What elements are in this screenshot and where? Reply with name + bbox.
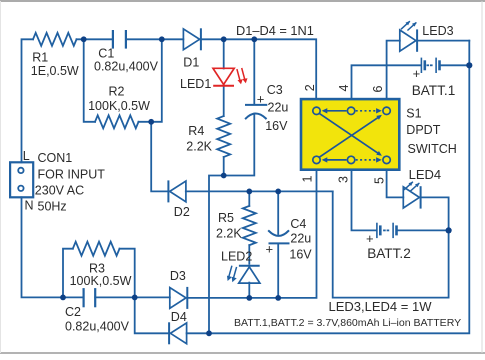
node BATT.2 right [446, 227, 452, 233]
svg-text:100K,0.5W: 100K,0.5W [70, 274, 132, 288]
node BATT.1 right [466, 62, 472, 68]
svg-text:LED3: LED3 [422, 24, 453, 38]
wire: LED1 branch node to LED1 [223, 39, 225, 68]
svg-text:LED1: LED1 [180, 77, 211, 91]
wire: LED2 to bottom rail [248, 283, 250, 298]
svg-text:D2: D2 [174, 205, 190, 219]
svg-text:D4: D4 [171, 310, 187, 324]
node D4 rail junction [206, 330, 212, 336]
wire: D4 rail to right vertical [187, 41, 470, 334]
resistor R3 [73, 242, 120, 256]
resistor R4 [217, 116, 230, 157]
svg-text:S1: S1 [406, 107, 421, 121]
svg-text:D1–D4 = 1N1: D1–D4 = 1N1 [236, 23, 314, 38]
node R5 top [246, 189, 252, 195]
svg-text:CON1: CON1 [38, 151, 73, 165]
svg-text:N: N [25, 199, 34, 213]
capacitor C2 [84, 289, 96, 306]
svg-text:R4: R4 [188, 124, 204, 138]
svg-text:22u: 22u [290, 232, 311, 246]
diode D1 [183, 29, 201, 50]
svg-text:R1: R1 [32, 51, 48, 65]
node C1/D1/R2 [159, 36, 165, 42]
node C3 branch [251, 36, 257, 42]
switch arrow bottom dotted [356, 159, 380, 161]
diode D3 [170, 288, 188, 309]
svg-text:1: 1 [301, 175, 315, 182]
resistor R2 [95, 115, 139, 128]
svg-text:+: + [257, 92, 265, 107]
frame: page border left [0, 1, 2, 353]
wire: pin6 branch up to LED3 [387, 41, 400, 99]
svg-text:1E,0.5W: 1E,0.5W [31, 64, 79, 78]
switch arrow top dotted [356, 110, 380, 112]
LED4 arrows [405, 182, 419, 190]
wire: R1 to C1 [77, 38, 113, 40]
resistor R1 [33, 33, 77, 46]
node R1/C1/R2 [81, 36, 87, 42]
svg-text:C3: C3 [267, 83, 283, 97]
diode D2 [168, 181, 186, 202]
svg-text:BATT.2: BATT.2 [367, 246, 411, 261]
svg-text:3: 3 [336, 176, 350, 183]
svg-text:5: 5 [372, 177, 386, 184]
svg-text:2.2K: 2.2K [186, 140, 212, 154]
svg-text:LED2: LED2 [221, 249, 252, 263]
svg-text:2: 2 [303, 84, 317, 91]
wire: C2 to D3 [95, 296, 170, 298]
wire: left vertical N to bottom rail [22, 197, 84, 297]
switch arrow top solid [324, 110, 347, 112]
wire: C1 to D1 [126, 38, 183, 40]
wire: pin4 branch up to BATT.1 [352, 65, 421, 99]
node LED1 branch [221, 36, 227, 42]
wire: junction down to D4 rail [209, 176, 224, 334]
svg-text:0.82u,400V: 0.82u,400V [94, 60, 159, 74]
wire: BATT.2 to node [397, 229, 448, 231]
capacitor C4 plates [269, 231, 289, 243]
svg-text:230V AC: 230V AC [35, 184, 84, 198]
svg-text:16V: 16V [289, 247, 312, 261]
svg-text:+: + [413, 66, 421, 81]
LED LED2 (blue) [227, 266, 260, 283]
diode D4 [169, 323, 187, 344]
svg-text:6: 6 [371, 85, 385, 92]
LED3 arrows [402, 22, 416, 30]
node LED2 bottom [246, 295, 252, 301]
svg-text:50Hz: 50Hz [38, 200, 67, 214]
svg-text:BATT.1: BATT.1 [412, 83, 456, 98]
wire: LED3 to right vertical [417, 40, 469, 42]
svg-text:+: + [366, 231, 374, 246]
svg-text:LED3,LED4 = 1W: LED3,LED4 = 1W [329, 299, 433, 314]
svg-text:C4: C4 [290, 217, 306, 231]
resistor R5 [243, 206, 256, 245]
node C4 top [275, 189, 281, 195]
capacitor C3 plates [246, 105, 266, 119]
wire: LED1 to R4 [223, 85, 225, 116]
svg-text:FOR INPUT: FOR INPUT [38, 168, 106, 182]
svg-text:+: + [266, 242, 274, 257]
wire: D3 rail to pin1 corner [187, 170, 316, 298]
wire: LED4 to BATT node [421, 197, 449, 230]
frame: page border bottom [0, 352, 485, 354]
switch S1 DPDT box [301, 99, 399, 170]
svg-text:SWITCH: SWITCH [408, 142, 457, 156]
wire: C3 to junction row [224, 114, 255, 176]
wire: D2 branch from R2 loop down [151, 122, 167, 192]
connector CON1 [10, 162, 33, 197]
wire: D2 rail to corner x332.7 [186, 190, 333, 192]
wire: R3 loop right vertical [120, 249, 135, 298]
svg-text:2.2K: 2.2K [216, 226, 242, 240]
wire: R2 loop right vertical [139, 39, 162, 122]
svg-text:C1: C1 [98, 46, 114, 60]
wire: R5 branch [248, 191, 250, 206]
svg-text:LED4: LED4 [409, 167, 442, 182]
svg-text:R5: R5 [218, 211, 234, 225]
LED LED1 (red) [213, 68, 248, 86]
svg-text:4: 4 [337, 84, 351, 91]
wire: C4 to bottom rail [277, 243, 279, 298]
wire: R5 to LED2 [248, 245, 250, 264]
svg-text:R2: R2 [109, 84, 125, 98]
svg-text:0.82u,400V: 0.82u,400V [65, 319, 130, 333]
battery BATT.1 [421, 58, 439, 72]
svg-text:D1: D1 [183, 56, 199, 70]
node C4 bottom [275, 295, 281, 301]
node R4/C3 junction [221, 173, 227, 179]
wire: BATT.1 to right vertical [440, 64, 469, 66]
node R3/C2 left [60, 295, 66, 301]
svg-text:C2: C2 [65, 305, 81, 319]
svg-text:22u: 22u [268, 101, 289, 115]
switch arrow bottom solid [324, 159, 347, 161]
wire: D1 to pin2 corner [200, 39, 317, 99]
svg-text:L: L [23, 149, 30, 163]
wire: R3 loop left vertical [63, 249, 73, 298]
LED LED4 [403, 187, 420, 208]
wire: C3 branch down [253, 39, 255, 104]
battery BATT.2 [377, 224, 397, 238]
wire: bottom-left node down to D4 rail [135, 297, 169, 333]
svg-text:D3: D3 [170, 269, 186, 283]
wire: R4 to junction [223, 157, 225, 176]
wire: top rail left segment L-to-R1 [22, 39, 34, 162]
LED LED3 [400, 30, 417, 51]
svg-text:100K,0.5W: 100K,0.5W [88, 99, 150, 113]
svg-text:DPDT: DPDT [406, 123, 440, 137]
capacitor C1 [113, 31, 126, 47]
wire: pin5 branch down to LED4 [387, 170, 404, 198]
wire: C4 branch down [277, 191, 279, 234]
node R3/C2 right [132, 295, 138, 301]
wire: pin3 branch down to BATT.2 [352, 170, 377, 231]
node R2/D2 branch [148, 119, 154, 125]
wire: negative rail down-right-up to BATT node [333, 191, 449, 297]
switch diagonal 2-5 [320, 116, 381, 157]
svg-text:16V: 16V [265, 119, 288, 133]
svg-text:BATT.1,BATT.2 = 3.7V,860mAh Li: BATT.1,BATT.2 = 3.7V,860mAh Li–ion BATTE… [234, 317, 461, 329]
frame: page border top [0, 0, 485, 2]
wire: R2 loop left vertical [84, 39, 95, 122]
frame: page border right [481, 1, 483, 353]
switch diagonal 1-6 [320, 114, 381, 155]
